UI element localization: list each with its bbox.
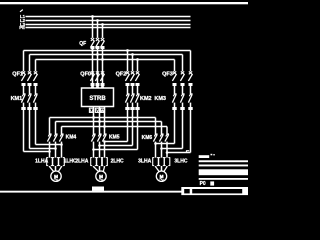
svg-text:STRB: STRB: [89, 96, 106, 102]
svg-text:2LHA: 2LHA: [75, 158, 88, 164]
svg-text:KM5: KM5: [109, 135, 120, 141]
svg-text:KM4: KM4: [66, 135, 77, 141]
svg-text:2LHC: 2LHC: [111, 158, 124, 164]
svg-text:KM1: KM1: [11, 96, 23, 102]
svg-text:QF2: QF2: [116, 71, 127, 77]
svg-text:QF3: QF3: [162, 71, 173, 77]
svg-text:KM6: KM6: [142, 135, 153, 141]
svg-text:3LHA: 3LHA: [138, 158, 151, 164]
svg-text:QF1: QF1: [12, 71, 23, 77]
svg-text:QF: QF: [79, 41, 86, 47]
svg-text:M: M: [99, 174, 103, 179]
svg-text:U: U: [90, 109, 93, 113]
svg-text:PE: PE: [19, 25, 25, 30]
svg-text:KM2: KM2: [140, 96, 152, 102]
svg-text:KM3: KM3: [154, 96, 166, 102]
svg-text:1LHA: 1LHA: [35, 158, 48, 164]
svg-text:M: M: [160, 174, 164, 179]
svg-text:QF0: QF0: [80, 71, 91, 77]
svg-text:M: M: [54, 174, 58, 179]
svg-text:P0: P0: [200, 181, 206, 187]
svg-text:3LHC: 3LHC: [174, 158, 187, 164]
